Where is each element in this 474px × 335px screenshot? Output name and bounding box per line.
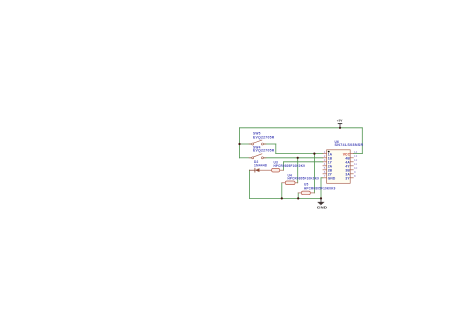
diode D2 1N4448 [249,160,271,172]
wire: node 1Y horizontal to pin 3 [284,161,323,163]
wire: SW4 left lead [240,157,252,159]
wire: left +5V rail vertical [239,128,241,158]
U6 pin 6 2Y [323,170,333,176]
resistor U4 HPCR0805F10K0K9 [282,173,319,184]
svg-text:HPCR0805F10K0K9: HPCR0805F10K0K9 [288,177,320,181]
U6 pin 12 4A [345,158,357,164]
wire: VCC riser right [361,128,363,154]
svg-text:HPCR0805F10K0K9: HPCR0805F10K0K9 [304,186,336,190]
U6 pin 14 VCC [343,150,358,156]
svg-text:GND: GND [317,206,328,210]
switch SW5 EVQ22705R [249,132,275,145]
svg-text:EVQ22705R: EVQ22705R [253,135,275,139]
junction: GND symbol on ground rail [320,197,322,199]
wire: VCC pin horizontal [353,153,362,155]
U6 pin 3 1Y [323,158,333,164]
U6 pin 1 1A [323,150,333,156]
junction: SW5 tap on left rail [238,143,240,145]
U6 pin 7 GND [323,174,336,180]
wire: node 1A horizontal to pin 1 [276,153,323,155]
wire: U4 left drop to ground rail [281,183,283,199]
U6 pin 11 4Y [345,162,357,168]
wire: GND pin riser [321,178,323,199]
wire: +5V top rail [240,127,363,129]
wire: SW5 left lead [240,143,252,145]
junction: U5 riser on node 1A [313,153,315,155]
power +5V [337,118,343,127]
ground GND [317,198,328,209]
resistor U5 HPCR0805F10K0K9 [298,183,335,195]
svg-text:+5V: +5V [337,118,343,122]
svg-text:SN74LS08NSR: SN74LS08NSR [335,143,365,147]
svg-text:8: 8 [354,174,356,178]
wire: U5 left drop to ground rail [297,193,299,199]
wire: D2 cathode drop to ground rail [248,170,250,198]
wire: U5 right riser to 1A [313,154,315,193]
wire: U4 right riser to 1B [297,158,299,183]
U6 pin 9 3A [345,170,356,176]
U6 pin 13 4B [345,154,357,160]
U6 pin 10 3B [345,166,357,172]
svg-text:EVQ22705R: EVQ22705R [253,149,275,153]
switch SW4 EVQ22705R [249,146,275,159]
wire: SW5 output drop to 1A [275,144,277,154]
junction: U5 drop on ground rail [297,197,299,199]
svg-text:1N4448: 1N4448 [254,163,267,167]
wire: SW5 output horizontal [264,143,276,145]
U6 pin 5 2B [323,166,333,172]
op IC U6 SN74LS08NSR body [327,140,364,183]
resistor U3 HPCR0805F10K0K9 [272,161,305,172]
wire: U3 riser to 1Y [283,162,285,170]
wire: ground bottom rail [249,197,321,199]
junction: U4 drop on ground rail [281,197,283,199]
svg-text:3Y: 3Y [345,177,350,181]
U6 pin 4 2A [323,162,333,168]
svg-text:GND: GND [328,177,336,181]
wire: node 1B horizontal to pin 2 [264,157,323,159]
U6 pin 8 3Y [345,174,356,180]
U6 pin 2 1B [323,154,333,160]
junction: +5V on top rail [339,127,341,129]
svg-text:HPCR0805F10K0K9: HPCR0805F10K0K9 [274,164,306,168]
junction: U4 riser on node 1B [297,157,299,159]
